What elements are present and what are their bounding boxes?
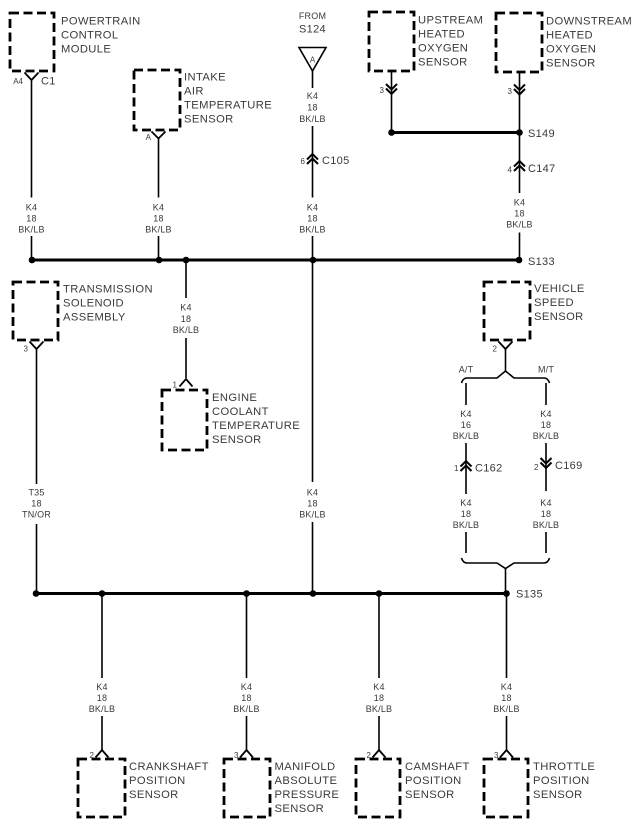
svg-text:TRANSMISSION: TRANSMISSION (63, 284, 153, 296)
engine coolant temperature sensor box (162, 390, 207, 450)
svg-text:K4: K4 (307, 91, 318, 101)
svg-text:BK/LB: BK/LB (145, 225, 172, 235)
manifold absolute pressure sensor box (224, 759, 270, 817)
wire A/T branch (465, 383, 467, 553)
svg-text:18: 18 (307, 499, 317, 509)
svg-text:SENSOR: SENSOR (212, 434, 262, 446)
wire VSS to split (505, 349, 507, 371)
svg-text:A: A (146, 133, 152, 142)
wire PCM to S133 bus (31, 80, 33, 260)
splice S135 dot (503, 590, 510, 597)
connector C105 (307, 154, 318, 164)
wire label K4 18 BK/LB (ECT) (173, 303, 200, 336)
wire label K4 16 BK/LB (A/T upper) (453, 409, 480, 441)
svg-text:18: 18 (153, 214, 163, 224)
svg-text:K4: K4 (540, 409, 551, 419)
wire upstream O2 down (391, 72, 393, 133)
transmission solenoid assembly box (13, 282, 58, 340)
svg-text:POSITION: POSITION (405, 775, 462, 787)
svg-text:3: 3 (508, 87, 513, 96)
svg-text:4: 4 (508, 166, 513, 175)
wire label K4 18 BK/LB (CMP) (366, 682, 393, 714)
svg-text:BK/LB: BK/LB (493, 704, 520, 714)
splice S135 bus (36, 592, 507, 595)
junction dot camshaft (376, 590, 383, 597)
svg-text:K4: K4 (514, 198, 525, 208)
svg-text:S124: S124 (299, 24, 326, 36)
wire IAT to S133 bus (158, 139, 160, 261)
svg-text:18: 18 (31, 499, 41, 509)
splice S149 dot (516, 129, 523, 136)
crankshaft position sensor label (129, 761, 209, 801)
svg-text:C1: C1 (41, 76, 56, 88)
connector fork at IAT (152, 132, 166, 139)
svg-text:A/T: A/T (459, 365, 474, 375)
svg-text:18: 18 (97, 693, 107, 703)
svg-text:DOWNSTREAM: DOWNSTREAM (546, 16, 632, 28)
connector fork at MAP pin 3 (240, 750, 253, 758)
svg-text:BK/LB: BK/LB (299, 510, 326, 520)
wire label K4 18 BK/LB (S124 upper) (299, 91, 326, 124)
svg-text:S135: S135 (516, 589, 543, 601)
svg-text:C147: C147 (528, 163, 556, 175)
wire M/T branch (545, 383, 547, 553)
junction dot IAT (156, 257, 163, 264)
svg-text:K4: K4 (26, 203, 37, 213)
wire label K4 18 BK/LB (IAT) (145, 203, 172, 235)
powertrain control module box (10, 13, 54, 71)
svg-text:MANIFOLD: MANIFOLD (275, 761, 336, 773)
svg-text:PRESSURE: PRESSURE (275, 789, 340, 801)
svg-text:POSITION: POSITION (533, 775, 590, 787)
svg-text:BK/LB: BK/LB (233, 704, 260, 714)
vehicle speed sensor box (484, 282, 530, 340)
engine coolant temperature sensor branch wire (185, 260, 187, 378)
svg-text:18: 18 (26, 214, 36, 224)
svg-text:SENSOR: SENSOR (129, 789, 179, 801)
svg-text:BK/LB: BK/LB (18, 225, 45, 235)
svg-text:AIR: AIR (184, 86, 204, 98)
svg-text:BK/LB: BK/LB (366, 704, 393, 714)
svg-text:18: 18 (307, 103, 317, 113)
junction dot MAP (243, 590, 250, 597)
svg-text:C169: C169 (555, 460, 583, 472)
svg-text:18: 18 (501, 693, 511, 703)
connector C162 (461, 461, 472, 471)
svg-text:MODULE: MODULE (61, 44, 111, 56)
svg-text:T35: T35 (28, 488, 44, 498)
svg-text:BK/LB: BK/LB (89, 704, 116, 714)
wire label K4 18 BK/LB (MAP) (233, 682, 260, 714)
svg-text:K4: K4 (180, 303, 191, 313)
junction dot center (310, 257, 317, 264)
manifold absolute pressure sensor label (275, 761, 340, 815)
connector fork at PCM (25, 73, 39, 81)
wire label K4 18 BK/LB (A/T lower) (453, 498, 480, 530)
svg-text:K4: K4 (501, 682, 512, 692)
svg-text:K4: K4 (153, 203, 164, 213)
options merge symbol (462, 558, 550, 569)
svg-text:FROM: FROM (299, 11, 326, 21)
wire label K4 18 BK/LB (center long wire) (299, 488, 326, 520)
svg-text:TEMPERATURE: TEMPERATURE (184, 100, 272, 112)
svg-text:HEATED: HEATED (418, 29, 465, 41)
svg-text:VEHICLE: VEHICLE (534, 283, 585, 295)
svg-text:CRANKSHAFT: CRANKSHAFT (129, 761, 209, 773)
wire to S149 (392, 131, 520, 134)
svg-text:ENGINE: ENGINE (212, 392, 257, 404)
svg-text:A: A (310, 56, 316, 65)
svg-text:K4: K4 (241, 682, 252, 692)
svg-text:18: 18 (307, 214, 317, 224)
splice S133 bus (32, 259, 519, 262)
svg-text:3: 3 (380, 86, 385, 95)
svg-text:K4: K4 (540, 498, 551, 508)
svg-text:BK/LB: BK/LB (299, 225, 326, 235)
svg-text:COOLANT: COOLANT (212, 406, 269, 418)
camshaft position sensor label (405, 761, 470, 801)
svg-text:TN/OR: TN/OR (22, 510, 51, 520)
connector chevron downstream pin 3 (514, 85, 525, 95)
svg-text:1: 1 (454, 464, 459, 473)
options split symbol (462, 371, 550, 383)
svg-text:BK/LB: BK/LB (533, 520, 560, 530)
camshaft position sensor box (356, 759, 400, 817)
junction dot upstream (388, 129, 395, 136)
svg-text:K4: K4 (460, 498, 471, 508)
upstream heated oxygen sensor label (418, 15, 483, 69)
svg-text:HEATED: HEATED (546, 30, 593, 42)
svg-text:18: 18 (181, 314, 191, 324)
svg-text:18: 18 (514, 209, 524, 219)
svg-text:SENSOR: SENSOR (534, 311, 584, 323)
wire downstream O2 down to S133 (519, 73, 521, 261)
wire crankshaft position sensor (101, 594, 103, 751)
svg-text:S133: S133 (528, 256, 555, 268)
svg-text:BK/LB: BK/LB (506, 220, 533, 230)
svg-text:K4: K4 (307, 488, 318, 498)
vehicle speed sensor label (534, 283, 585, 323)
wire TSA to S135 bus (36, 349, 38, 594)
wire label K4 18 BK/LB (M/T upper) (533, 409, 560, 441)
wire merge to S135 (505, 569, 507, 591)
svg-text:16: 16 (461, 420, 471, 430)
svg-text:18: 18 (241, 693, 251, 703)
svg-text:C105: C105 (322, 155, 350, 167)
junction dot ECT branch (183, 257, 190, 264)
wire camshaft position sensor (378, 594, 380, 751)
svg-text:2: 2 (493, 345, 498, 354)
svg-text:K4: K4 (373, 682, 384, 692)
powertrain control module label (61, 16, 141, 56)
svg-text:SENSOR: SENSOR (533, 789, 583, 801)
svg-text:CAMSHAFT: CAMSHAFT (405, 761, 470, 773)
wire label K4 18 BK/LB (S124 lower) (299, 203, 326, 235)
intake air temperature sensor box (134, 70, 180, 130)
off-page triangle A (299, 48, 326, 72)
svg-text:POSITION: POSITION (129, 775, 186, 787)
svg-text:BK/LB: BK/LB (299, 114, 326, 124)
svg-text:1: 1 (173, 381, 178, 390)
splice S133 dot (516, 257, 523, 264)
svg-text:M/T: M/T (538, 365, 554, 375)
upstream heated oxygen sensor box (369, 12, 414, 71)
svg-text:THROTTLE: THROTTLE (533, 761, 595, 773)
connector fork at TPS pin 3 (500, 750, 513, 758)
svg-text:INTAKE: INTAKE (184, 72, 226, 84)
svg-text:SENSOR: SENSOR (546, 58, 596, 70)
svg-text:BK/LB: BK/LB (173, 325, 200, 335)
junction dot PCM (29, 257, 36, 264)
connector fork at VSS pin 2 (499, 342, 513, 350)
svg-text:POWERTRAIN: POWERTRAIN (61, 16, 141, 28)
connector fork at CMP pin 2 (373, 750, 386, 758)
svg-text:BK/LB: BK/LB (533, 431, 560, 441)
wire label T35 18 TN/OR (22, 488, 51, 520)
svg-text:SENSOR: SENSOR (405, 789, 455, 801)
svg-text:K4: K4 (307, 203, 318, 213)
wire label K4 18 BK/LB (PCM) (18, 203, 45, 235)
svg-text:K4: K4 (96, 682, 107, 692)
svg-text:18: 18 (541, 509, 551, 519)
wire label K4 18 BK/LB (downstream) (506, 198, 533, 230)
connector chevron upstream pin 3 (386, 84, 397, 94)
throttle position sensor label (533, 761, 595, 801)
wire S124 down (312, 71, 314, 594)
wire label K4 18 BK/LB (TPS) (493, 682, 520, 714)
svg-text:SOLENOID: SOLENOID (63, 298, 124, 310)
svg-text:C162: C162 (475, 463, 503, 475)
svg-text:BK/LB: BK/LB (453, 431, 480, 441)
connector fork at TSA pin 3 (30, 342, 44, 350)
engine coolant temperature sensor label (212, 392, 300, 446)
junction dot center wire (310, 590, 317, 597)
junction dot crankshaft (99, 590, 106, 597)
wire manifold absolute pressure sensor (246, 594, 248, 751)
svg-text:CONTROL: CONTROL (61, 30, 119, 42)
downstream heated oxygen sensor box (496, 13, 542, 72)
svg-text:18: 18 (541, 420, 551, 430)
intake air temperature sensor label (184, 72, 272, 126)
svg-text:BK/LB: BK/LB (453, 520, 480, 530)
connector fork at ECT pin 1 (180, 379, 193, 387)
crankshaft position sensor box (78, 759, 125, 817)
svg-text:2: 2 (534, 463, 539, 472)
wire throttle position sensor (506, 594, 508, 751)
downstream heated oxygen sensor label (546, 16, 632, 70)
svg-text:ASSEMBLY: ASSEMBLY (63, 312, 126, 324)
wire label K4 18 BK/LB (M/T lower) (533, 498, 560, 530)
transmission solenoid assembly label (63, 284, 153, 324)
svg-text:ABSOLUTE: ABSOLUTE (275, 775, 338, 787)
junction dot TSA (33, 590, 40, 597)
svg-text:S149: S149 (528, 128, 555, 140)
svg-text:SPEED: SPEED (534, 297, 574, 309)
svg-text:OXYGEN: OXYGEN (546, 44, 596, 56)
svg-text:18: 18 (461, 509, 471, 519)
svg-text:6: 6 (301, 157, 306, 166)
svg-text:K4: K4 (460, 409, 471, 419)
svg-text:SENSOR: SENSOR (418, 57, 468, 69)
connector C169 (541, 458, 552, 468)
svg-text:SENSOR: SENSOR (275, 803, 325, 815)
svg-text:A4: A4 (13, 77, 23, 86)
svg-text:SENSOR: SENSOR (184, 114, 234, 126)
throttle position sensor box (484, 759, 528, 817)
svg-text:18: 18 (374, 693, 384, 703)
svg-text:UPSTREAM: UPSTREAM (418, 15, 483, 27)
wire label K4 18 BK/LB (CKP) (89, 682, 116, 714)
svg-text:TEMPERATURE: TEMPERATURE (212, 420, 300, 432)
connector fork at CKP pin 2 (96, 750, 109, 758)
connector C147 (514, 161, 525, 171)
svg-text:OXYGEN: OXYGEN (418, 43, 468, 55)
svg-text:3: 3 (24, 345, 29, 354)
